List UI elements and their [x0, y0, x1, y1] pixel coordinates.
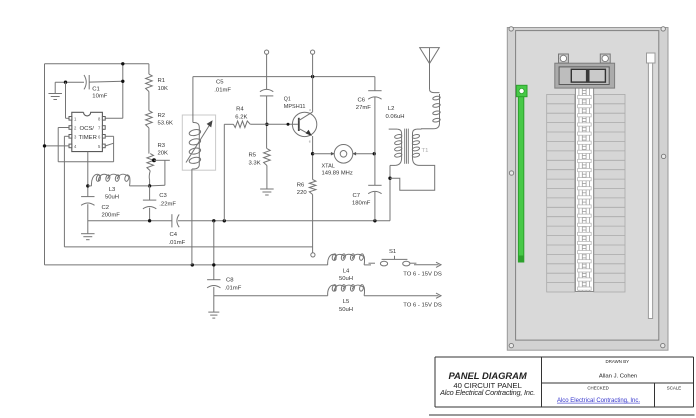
svg-text:TO 6 - 15V DS: TO 6 - 15V DS: [403, 303, 442, 309]
svg-text:Allan J. Cohen: Allan J. Cohen: [599, 374, 637, 380]
svg-text:Alco Electrical Contracting, I: Alco Electrical Contracting, Inc.: [439, 388, 535, 397]
svg-text:149.89 MHz: 149.89 MHz: [322, 171, 353, 177]
svg-text:3.3K: 3.3K: [249, 160, 261, 166]
svg-text:C6: C6: [358, 98, 366, 104]
svg-text:Alco Electrical Contracting, I: Alco Electrical Contracting, Inc.: [557, 398, 640, 404]
svg-text:10K: 10K: [158, 86, 169, 92]
svg-text:C4: C4: [170, 232, 178, 238]
svg-text:R3: R3: [158, 143, 166, 149]
svg-text:.22mF: .22mF: [159, 201, 176, 207]
svg-text:OCS/: OCS/: [80, 126, 95, 132]
svg-text:R1: R1: [158, 78, 166, 84]
svg-text:.01mF: .01mF: [225, 285, 242, 291]
svg-text:SCALE: SCALE: [667, 385, 681, 390]
svg-text:S1: S1: [389, 249, 396, 255]
svg-text:27mF: 27mF: [356, 105, 371, 111]
svg-text:10mF: 10mF: [92, 93, 107, 99]
svg-text:XTAL: XTAL: [322, 164, 335, 170]
svg-text:C5: C5: [216, 79, 224, 85]
svg-text:PANEL DIAGRAM: PANEL DIAGRAM: [448, 370, 526, 381]
svg-text:R2: R2: [158, 113, 166, 119]
svg-text:53.6K: 53.6K: [158, 121, 173, 127]
svg-text:200mF: 200mF: [102, 212, 121, 218]
svg-text:6.2K: 6.2K: [235, 114, 247, 120]
svg-text:C7: C7: [353, 193, 361, 199]
svg-text:c: c: [309, 108, 311, 112]
svg-text:L4: L4: [343, 268, 350, 274]
svg-text:220: 220: [297, 190, 308, 196]
svg-text:CHECKED: CHECKED: [587, 385, 608, 390]
svg-text:e: e: [309, 140, 311, 144]
svg-text:C2: C2: [102, 205, 110, 211]
svg-text:L5: L5: [343, 299, 350, 305]
svg-text:MPSH11: MPSH11: [284, 104, 306, 110]
svg-text:C1: C1: [92, 86, 100, 92]
svg-text:.01mF: .01mF: [214, 87, 231, 93]
svg-text:C3: C3: [159, 193, 167, 199]
svg-text:L3: L3: [109, 187, 116, 193]
svg-text:50uH: 50uH: [339, 276, 353, 282]
svg-text:R4: R4: [236, 106, 244, 112]
svg-text:R6: R6: [297, 182, 305, 188]
svg-text:Q1: Q1: [284, 97, 291, 103]
svg-text:TIMER: TIMER: [79, 135, 97, 141]
svg-text:C8: C8: [226, 277, 234, 283]
svg-text:0.06uH: 0.06uH: [386, 114, 405, 120]
svg-text:180mF: 180mF: [352, 200, 371, 206]
svg-text:50uH: 50uH: [105, 194, 119, 200]
svg-text:L2: L2: [388, 106, 395, 112]
svg-text:R5: R5: [249, 152, 257, 158]
svg-text:20K: 20K: [158, 151, 169, 157]
svg-text:.01mF: .01mF: [169, 240, 186, 246]
svg-text:TO 6 - 15V DS: TO 6 - 15V DS: [403, 272, 442, 278]
svg-text:DRAWN BY: DRAWN BY: [606, 359, 630, 364]
svg-text:50uH: 50uH: [339, 307, 353, 313]
svg-text:T1: T1: [422, 148, 429, 154]
